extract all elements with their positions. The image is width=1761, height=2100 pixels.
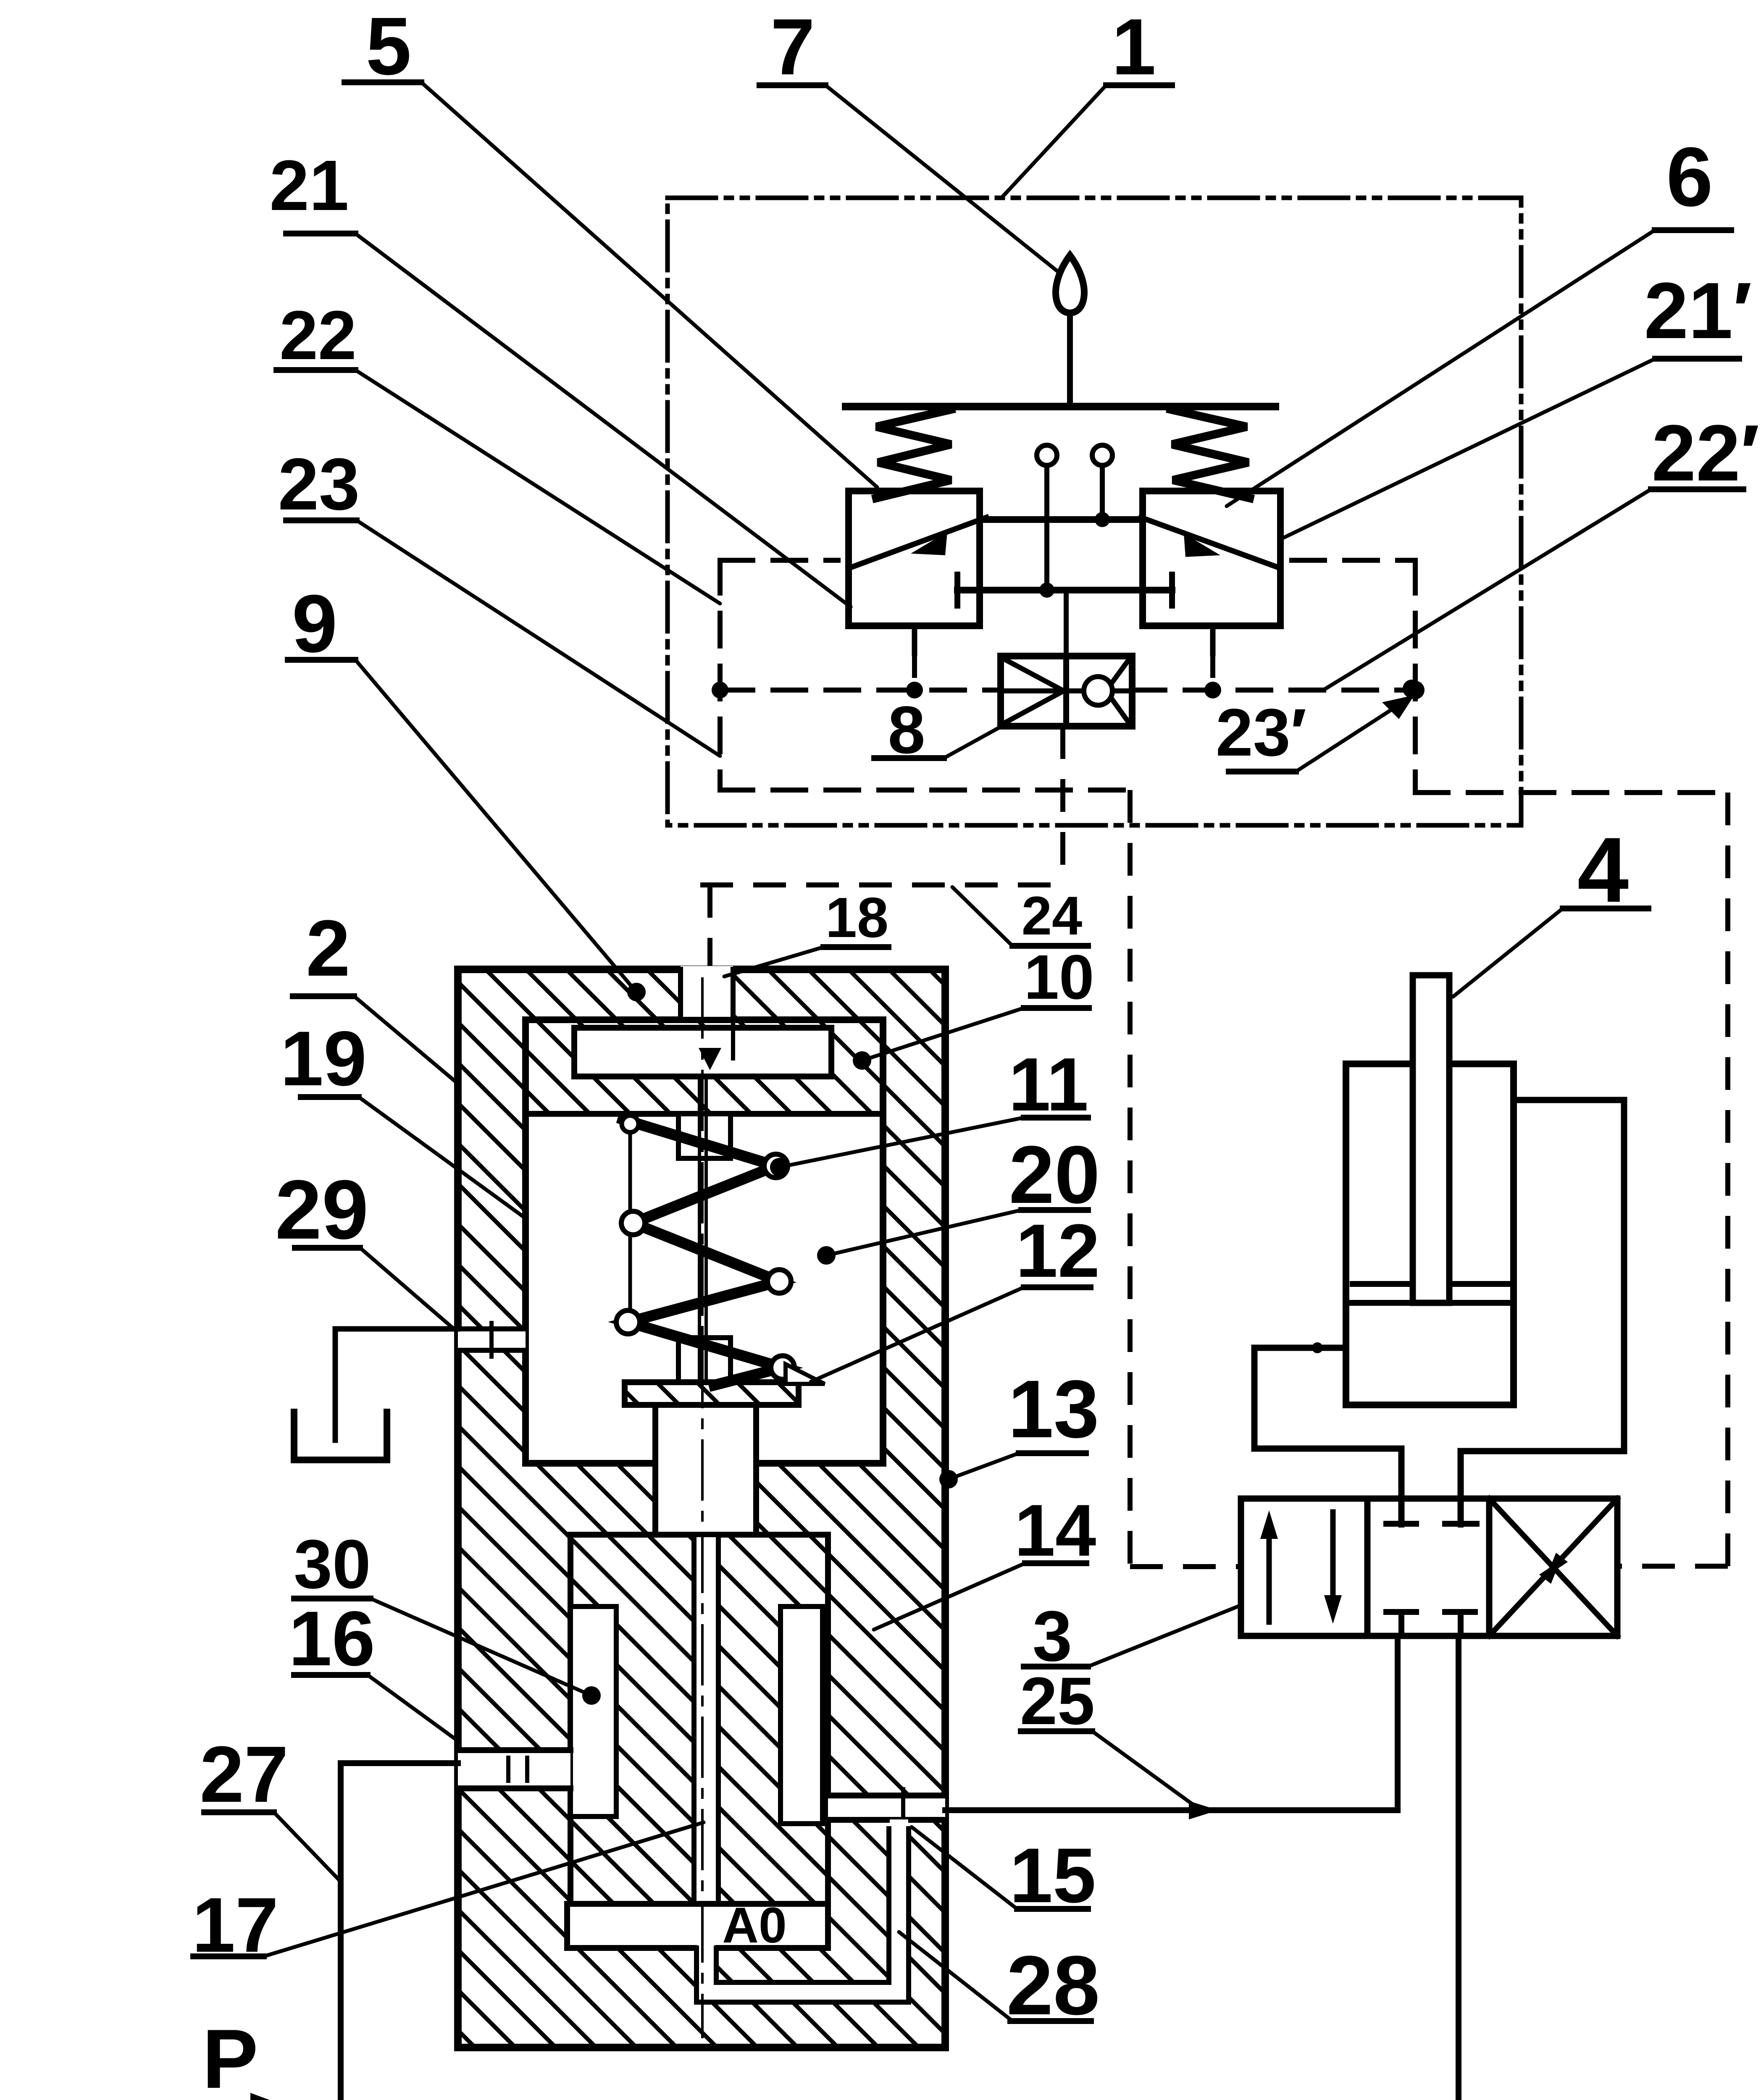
svg-text:20: 20 — [1009, 1129, 1100, 1221]
svg-text:22′: 22′ — [1652, 409, 1760, 498]
svg-text:5: 5 — [366, 0, 411, 92]
svg-text:18: 18 — [825, 886, 888, 949]
svg-text:29: 29 — [275, 1163, 368, 1257]
svg-text:21′: 21′ — [1644, 266, 1752, 355]
svg-text:22: 22 — [279, 297, 357, 374]
svg-text:6: 6 — [1666, 130, 1713, 224]
svg-text:12: 12 — [1016, 1209, 1100, 1293]
svg-text:A0: A0 — [722, 1897, 786, 1953]
svg-text:19: 19 — [280, 1016, 367, 1102]
svg-text:23′: 23′ — [1216, 695, 1306, 770]
svg-text:11: 11 — [1009, 1042, 1088, 1127]
svg-text:21: 21 — [269, 146, 349, 226]
svg-text:30: 30 — [294, 1525, 371, 1603]
svg-text:16: 16 — [289, 1596, 375, 1682]
svg-text:24: 24 — [1022, 885, 1083, 946]
svg-text:23: 23 — [278, 444, 360, 525]
svg-text:7: 7 — [770, 3, 815, 92]
svg-text:14: 14 — [1015, 1490, 1096, 1572]
svg-text:27: 27 — [200, 1730, 288, 1819]
svg-text:P: P — [202, 2012, 258, 2100]
svg-text:10: 10 — [1024, 942, 1094, 1012]
svg-text:2: 2 — [306, 904, 350, 993]
svg-text:9: 9 — [292, 578, 337, 669]
svg-text:13: 13 — [1008, 1363, 1099, 1455]
svg-text:25: 25 — [1020, 1663, 1095, 1738]
svg-text:1: 1 — [1112, 3, 1156, 92]
